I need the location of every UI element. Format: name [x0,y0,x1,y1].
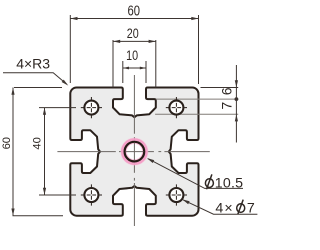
svg-text:6: 6 [219,87,235,95]
dim 10: ext lines [122,61,124,83]
ext line slot step (dim 6) [156,98,238,100]
dim 60 top: line [70,18,198,20]
dim 20: line [113,40,156,42]
leader phi10.5 [148,159,243,189]
hole phi7 top-right [169,101,183,115]
ext line slot bottom (dim 7) [155,113,238,115]
crosshair top-left [81,97,102,118]
label phi10.5 [205,179,213,188]
svg-text:10: 10 [126,48,138,64]
dim 10: line [123,67,146,69]
svg-text:7: 7 [218,102,234,110]
crosshair top-right [166,97,187,118]
dim 40 left: line [44,108,46,195]
svg-text:60: 60 [128,2,141,19]
svg-text:10.5: 10.5 [215,176,243,192]
vertical centerline [133,75,135,134]
hole phi7 top-left [84,101,98,115]
svg-text:20: 20 [127,26,139,42]
leader 4x phi7 [183,200,257,214]
svg-text:4×R3: 4×R3 [16,56,50,72]
leader 4xR3 underline + diagonal [3,73,67,85]
crosshair bottom-right [166,184,187,205]
crosshair bottom-left [81,184,102,205]
dim 60 left: line [12,88,14,216]
horizontal centerline [57,151,115,153]
dim 6/7 right: vertical line [235,65,237,143]
dim 60 top: ext lines [69,15,71,83]
center hole phi10.5 highlighted [124,142,144,162]
svg-text:60: 60 [1,137,13,149]
hole phi7 bottom-left [84,188,98,202]
dim 60 left: ext lines [14,87,62,89]
svg-text:40: 40 [32,137,44,149]
dim 20: ext lines [112,40,114,88]
dim 40 left: ext lines [39,107,76,109]
hole phi7 bottom-right [169,188,183,202]
extrusion profile body 60x60 [70,88,198,216]
centerline across center hole [125,151,143,153]
dim 6/7 right: ext line top edge [201,87,239,89]
